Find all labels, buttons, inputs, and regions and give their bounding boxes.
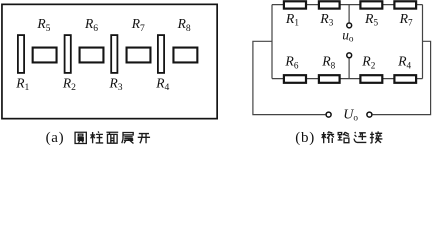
caption glyph zhan2 — [122, 133, 134, 144]
svg-text:(a): (a) — [46, 130, 65, 146]
terminal: u_o lower (open circle) — [347, 53, 352, 58]
label R6 — [284, 54, 298, 71]
resistor R3 (vertical strain gauge strip) — [111, 35, 117, 73]
svg-text:R4: R4 — [155, 75, 169, 93]
caption glyph jie2 — [370, 131, 383, 143]
label U_o (bridge supply/output voltage) — [343, 108, 358, 123]
label R3 — [109, 75, 123, 93]
resistor R3 (bridge arm, top branch) — [319, 1, 340, 8]
label R7 — [131, 16, 145, 34]
svg-text:(b): (b) — [295, 130, 315, 146]
svg-text:R5: R5 — [36, 16, 50, 34]
wire: left supply lead to U_o terminal — [253, 41, 326, 114]
svg-text:R8: R8 — [177, 16, 191, 34]
resistor R1 (vertical strain gauge strip) — [18, 35, 24, 73]
wire: left vertical joining top and bottom branches — [271, 5, 273, 79]
svg-text:R3: R3 — [109, 75, 123, 93]
caption glyph qiao2 — [322, 131, 335, 143]
svg-text:R2: R2 — [62, 75, 76, 93]
label R8 — [321, 54, 335, 71]
terminal: U_o left (open circle) — [326, 112, 331, 117]
wire: top mid-node drop to u_o terminal — [348, 5, 350, 23]
caption glyph yuan2 — [75, 132, 86, 143]
resistor R2 (bridge arm, bottom branch) — [360, 75, 382, 83]
resistor R2 (vertical strain gauge strip) — [65, 35, 71, 73]
label R1 — [15, 75, 29, 93]
wire: bottom mid-node rise to u_o terminal — [348, 58, 350, 78]
resistor R5 (bridge arm, top branch) — [360, 1, 382, 8]
resistor R7 (bridge arm, top branch) — [394, 1, 416, 8]
enclosure box of unfolded cylinder surface (a) — [2, 4, 217, 118]
terminal: U_o right (open circle) — [367, 112, 372, 117]
label u_o (bridge output voltage) — [342, 28, 354, 44]
resistor R8 (bridge arm, bottom branch) — [319, 75, 340, 83]
label R8 — [177, 16, 191, 34]
caption (b) — [295, 130, 315, 146]
svg-text:Uo: Uo — [343, 108, 358, 123]
resistor R8 (horizontal strain gauge strip) — [173, 48, 197, 63]
label R2 — [62, 75, 76, 93]
resistor R6 (bridge arm, bottom branch) — [284, 75, 306, 83]
svg-text:R7: R7 — [131, 16, 145, 34]
label R6 — [84, 16, 98, 34]
label R5 — [364, 11, 378, 28]
wire: right supply lead to U_o terminal — [373, 41, 431, 114]
caption glyph mian2 — [106, 132, 118, 143]
resistor R4 (bridge arm, bottom branch) — [394, 75, 416, 83]
wire: bottom branch bus (R6-R8-R2-R4 series) — [272, 78, 423, 80]
label R2 — [361, 54, 375, 71]
label R3 — [319, 11, 333, 28]
label R7 — [399, 11, 413, 28]
svg-text:R2: R2 — [361, 54, 375, 71]
terminal: u_o upper (open circle) — [347, 23, 352, 28]
svg-text:R3: R3 — [319, 11, 333, 28]
svg-text:R5: R5 — [364, 11, 378, 28]
caption glyph lian2 — [354, 132, 366, 142]
resistor R1 (bridge arm, top branch) — [284, 1, 306, 8]
svg-text:R8: R8 — [321, 54, 335, 71]
svg-text:R1: R1 — [15, 75, 29, 93]
caption glyph lu2 — [338, 132, 350, 143]
caption (a) — [46, 130, 65, 146]
wire: right vertical joining top and bottom branches — [422, 5, 424, 79]
svg-text:R1: R1 — [285, 11, 299, 28]
resistor R7 (horizontal strain gauge strip) — [127, 48, 151, 63]
svg-text:R7: R7 — [399, 11, 413, 28]
caption glyph kai2 — [138, 134, 150, 144]
resistor R6 (horizontal strain gauge strip) — [80, 48, 104, 63]
label R1 — [285, 11, 299, 28]
label R4 — [155, 75, 169, 93]
svg-text:R6: R6 — [284, 54, 298, 71]
svg-text:uo: uo — [342, 28, 354, 44]
wire: top branch bus (R1-R3-R5-R7 series) — [272, 4, 423, 6]
caption glyph zhu2 — [90, 131, 103, 143]
label R4 — [397, 54, 411, 71]
label R5 — [36, 16, 50, 34]
svg-text:R6: R6 — [84, 16, 98, 34]
svg-text:R4: R4 — [397, 54, 411, 71]
resistor R4 (vertical strain gauge strip) — [158, 35, 164, 73]
resistor R5 (horizontal strain gauge strip) — [33, 48, 57, 63]
